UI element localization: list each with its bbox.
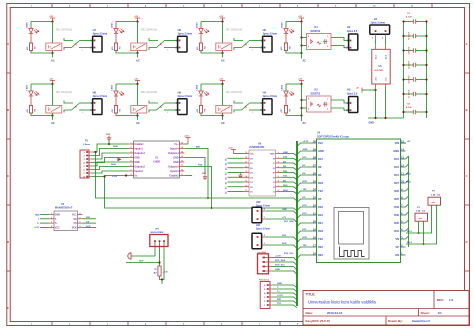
- svg-text:14: 14: [245, 175, 247, 178]
- svg-text:5: 5: [278, 176, 279, 178]
- svg-text:Inputs3: Inputs3: [170, 170, 179, 173]
- svg-text:Date:: Date:: [306, 311, 314, 315]
- wire JP5 pin3 down: [160, 247, 165, 280]
- node top K3: [300, 83, 302, 85]
- svg-text:RX0: RX0: [318, 229, 324, 233]
- IC U1 L293D: [129, 141, 185, 178]
- svg-text:AC: AC: [303, 122, 307, 125]
- wire H1 pin1 to U5 AC1: [375, 39, 377, 44]
- power flag +12V H5 block: [219, 16, 225, 21]
- wire LED to resistor R1: [115, 34, 117, 43]
- relay coil K3: [216, 43, 232, 51]
- svg-text:2pins 3.5mm: 2pins 3.5mm: [263, 32, 277, 35]
- svg-text:JRC-23F(4100): JRC-23F(4100): [226, 91, 243, 94]
- wire long loop 2: [103, 175, 297, 211]
- svg-text:L293D: L293D: [153, 161, 160, 164]
- svg-text:GND: GND: [303, 149, 308, 151]
- net label AC: [301, 116, 303, 122]
- power flag +12V H6 block: [134, 16, 140, 21]
- wire coil vertical: [222, 84, 224, 106]
- svg-text:GND: GND: [106, 134, 111, 136]
- svg-text:2pins 3.5mm: 2pins 3.5mm: [256, 229, 270, 231]
- svg-text:AC: AC: [136, 121, 140, 125]
- svg-text:T-: T-: [55, 219, 57, 221]
- wire K3 to H3 pin1: [331, 100, 349, 103]
- svg-text:H7: H7: [93, 28, 97, 32]
- svg-text:D01_SD4: D01_SD4: [284, 220, 294, 223]
- svg-text:GND: GND: [277, 283, 282, 285]
- svg-text:DI02: DI02: [283, 190, 288, 192]
- wire coil to node: [222, 113, 224, 116]
- svg-text:2.54_1x2: 2.54_1x2: [431, 193, 441, 196]
- wire K3 to H3 pin2: [331, 108, 349, 110]
- svg-text:3: 3: [131, 152, 132, 154]
- svg-text:Sheet:: Sheet:: [421, 311, 430, 315]
- node junction top H7 block: [51, 20, 53, 22]
- svg-text:DOIT ESP32 DevKit V1 copy: DOIT ESP32 DevKit V1 copy: [317, 135, 350, 138]
- svg-text:H4: H4: [263, 90, 267, 94]
- svg-text:D32: D32: [394, 213, 399, 217]
- wire H10 pin2 GND to bus: [266, 209, 297, 214]
- svg-text:2.54_1x2: 2.54_1x2: [416, 210, 426, 213]
- power flag +12V H9 block: [134, 79, 140, 84]
- svg-text:E: E: [7, 306, 9, 310]
- svg-text:SauleVire.LT: SauleVire.LT: [412, 319, 430, 323]
- svg-text:24: 24: [313, 187, 317, 191]
- svg-text:D18: D18: [318, 205, 323, 209]
- connector H10 2pins 3.5mm: [252, 201, 270, 223]
- svg-text:+3.3V: +3.3V: [275, 256, 281, 258]
- relay contact switch K5: [64, 101, 93, 115]
- svg-text:GND: GND: [134, 157, 140, 160]
- svg-text:M3OSCREW: M3OSCREW: [151, 232, 165, 234]
- svg-text:9: 9: [182, 174, 183, 176]
- node junction top H5 block: [221, 20, 223, 22]
- svg-text:1.0: 1.0: [449, 298, 454, 302]
- relay coil K2: [131, 43, 147, 51]
- relay contact switch K3: [234, 38, 263, 52]
- LED LED9: [281, 84, 294, 96]
- svg-text:DO2: DO2: [282, 243, 287, 245]
- svg-text:VP: VP: [396, 245, 400, 249]
- wire P2 pin2 DI0: [406, 205, 437, 245]
- svg-text:H6: H6: [178, 28, 182, 32]
- svg-text:+3.3V: +3.3V: [277, 295, 283, 297]
- svg-text:Drawn By:: Drawn By:: [388, 319, 403, 323]
- wire U1 Outputs3 to loop: [184, 167, 211, 209]
- svg-text:EasyEDA V5.6.15: EasyEDA V5.6.15: [306, 319, 331, 323]
- svg-text:LED3: LED3: [111, 84, 113, 90]
- wire resistor bottom R5: [31, 113, 53, 116]
- antenna terminal symbol: [128, 253, 135, 259]
- svg-text:VCC: VCC: [55, 227, 60, 229]
- svg-text:13: 13: [401, 155, 405, 159]
- power flag +5V at U5 output: [356, 88, 376, 93]
- svg-text:C7 100nF: C7 100nF: [409, 89, 411, 98]
- svg-text:H8: H8: [93, 90, 97, 94]
- net label AC: [222, 53, 224, 58]
- svg-text:D22: D22: [318, 245, 323, 249]
- svg-text:TX2: TX2: [318, 189, 323, 193]
- node junction bottom H4 block: [221, 114, 223, 116]
- node bottom K3: [300, 114, 302, 116]
- power flag +12V H7 block: [49, 16, 55, 21]
- wire resistor bottom R3: [116, 113, 138, 116]
- svg-text:LED8: LED8: [281, 22, 283, 28]
- LED LED4: [195, 84, 209, 96]
- svg-text:DI0 1: DI0 1: [407, 242, 413, 244]
- wire H11 pin1 DO2 to bus: [266, 243, 297, 248]
- svg-text:C: C: [7, 174, 9, 178]
- net label AC: [137, 53, 139, 58]
- node loop1 bus: [207, 197, 209, 199]
- relay contact switch K2: [149, 38, 178, 52]
- capacitor C2 4.7uF: [402, 13, 427, 24]
- svg-text:6: 6: [80, 222, 81, 224]
- wire LED to resistor R2: [200, 34, 202, 43]
- svg-text:GND: GND: [134, 161, 140, 164]
- svg-text:4.7uF: 4.7uF: [406, 16, 412, 19]
- ground symbol right of U1: [202, 158, 207, 180]
- svg-text:D26: D26: [394, 189, 399, 193]
- svg-text:16: 16: [245, 166, 247, 168]
- wire mesh P1 to U1: [92, 144, 129, 177]
- svg-text:Universalus kieto kuro katilo: Universalus kieto kuro katilo valdiklis: [308, 299, 376, 304]
- wire top H8 block: [31, 83, 53, 85]
- capacitor C5 100nF: [402, 60, 427, 69]
- wire coil vertical: [52, 22, 54, 44]
- wire coil to node: [52, 51, 54, 54]
- svg-text:+DC: +DC: [375, 76, 377, 81]
- wire capacitor bank right rail: [426, 22, 428, 119]
- wires bus to U2 left pins: [284, 141, 312, 258]
- svg-text:A: A: [466, 42, 468, 46]
- svg-text:Outputs2: Outputs2: [134, 166, 145, 169]
- net label AC: [137, 116, 139, 121]
- svg-text:D2: D2: [318, 165, 322, 169]
- wires U4 left: [34, 214, 49, 229]
- svg-text:11: 11: [245, 190, 247, 192]
- wire coil vertical: [137, 22, 139, 44]
- svg-text:14: 14: [401, 147, 405, 151]
- svg-text:1: 1: [278, 157, 279, 159]
- svg-text:Inputs4: Inputs4: [170, 148, 179, 151]
- wires U2 right edge hatch entries: [406, 156, 409, 247]
- svg-text:29: 29: [313, 147, 317, 151]
- svg-text:C4 100nF: C4 100nF: [408, 46, 411, 55]
- svg-text:JRC-23F(4100): JRC-23F(4100): [141, 29, 158, 32]
- title block REV: [437, 298, 454, 302]
- wires JP4 to bus: [272, 256, 298, 275]
- connector H6 2pins 3.5mm: [176, 28, 193, 52]
- svg-text:VN: VN: [395, 237, 399, 241]
- connector H8 2pins 3.5mm: [91, 90, 108, 114]
- svg-text:6: 6: [131, 165, 132, 167]
- svg-text:4: 4: [131, 155, 132, 158]
- wire long loop 1: [94, 151, 297, 201]
- svg-text:10: 10: [245, 152, 247, 154]
- connector H1 2pins 3.5mm: [370, 17, 390, 40]
- relay coil K7: [216, 106, 232, 114]
- svg-text:DI07: DI07: [139, 261, 144, 263]
- LED LED5: [26, 84, 39, 96]
- svg-text:C5 100nF: C5 100nF: [409, 60, 411, 69]
- svg-text:DI01: DI01: [283, 185, 288, 187]
- connector P4 2.5mm: [259, 278, 273, 308]
- node junction bottom H6 block: [136, 52, 138, 54]
- svg-text:2pins 3.5mm: 2pins 3.5mm: [263, 95, 277, 98]
- svg-text:GND: GND: [202, 173, 207, 175]
- svg-text:DO1: DO1: [282, 235, 287, 237]
- svg-text:D25: D25: [394, 197, 399, 201]
- svg-text:+12V: +12V: [184, 135, 189, 137]
- title block Drawn By: [388, 319, 430, 323]
- capacitor C4 100nF: [402, 46, 427, 55]
- svg-text:B: B: [466, 108, 468, 112]
- svg-text:Inputs2: Inputs2: [134, 170, 143, 173]
- solid state relay K4 S202T02: [302, 26, 332, 49]
- wire top H9 block: [116, 83, 138, 85]
- wire bottom rail to capacitor bank: [368, 117, 404, 119]
- svg-text:+7V: +7V: [282, 217, 286, 219]
- svg-text:Vs+: Vs+: [174, 143, 179, 146]
- svg-text:TXD: TXD: [198, 164, 203, 166]
- relay coil K5: [46, 106, 62, 114]
- capacitor C7 100nF: [402, 89, 427, 98]
- wire top H4 block: [201, 83, 223, 85]
- svg-text:13: 13: [181, 156, 183, 158]
- relay coil K6: [131, 106, 147, 114]
- svg-text:H1: H1: [374, 17, 378, 21]
- wire coil to node: [137, 51, 139, 54]
- svg-text:8: 8: [131, 174, 132, 176]
- LED LED1: [111, 22, 123, 34]
- wire top K4 block: [286, 21, 302, 23]
- svg-text:7: 7: [278, 185, 279, 187]
- svg-text:14: 14: [181, 151, 183, 154]
- node junction top H8 block: [51, 83, 53, 85]
- svg-text:TITLE:: TITLE:: [306, 293, 316, 297]
- svg-text:D33: D33: [394, 205, 399, 209]
- svg-text:JRC-23F(4100): JRC-23F(4100): [56, 29, 73, 32]
- netflag arrow U1 pin3: [118, 158, 122, 162]
- svg-text:T-: T-: [277, 287, 279, 289]
- svg-text:Enable2: Enable2: [169, 175, 179, 178]
- node junction bottom pullup: [161, 278, 163, 284]
- relay coil K1: [46, 43, 62, 51]
- svg-text:Outputs1: Outputs1: [134, 152, 145, 155]
- svg-text:SO: SO: [73, 219, 77, 221]
- connector JP5 M3OSCREW: [150, 228, 168, 246]
- power flag +12V H8 block: [49, 79, 55, 84]
- wire capacitor bank left rail: [403, 22, 405, 119]
- svg-text:ULN2803APG: ULN2803APG: [249, 146, 265, 149]
- svg-text:D: D: [7, 240, 9, 244]
- svg-text:3: 3: [278, 166, 279, 168]
- wire JP5 pin1 to terminal: [135, 247, 156, 257]
- svg-text:JRC-23F(4100): JRC-23F(4100): [141, 91, 158, 94]
- svg-text:wire: wire: [432, 202, 436, 204]
- svg-text:SCK: SCK: [72, 227, 77, 229]
- svg-text:+3.3V: +3.3V: [303, 141, 309, 143]
- resistor R3 470: [111, 106, 121, 114]
- svg-text:25: 25: [313, 179, 317, 183]
- wire resistor bottom R6: [31, 51, 53, 54]
- svg-text:AC: AC: [221, 121, 225, 125]
- capacitor C3 100nF: [402, 31, 427, 40]
- svg-text:D19: D19: [318, 213, 323, 217]
- svg-text:D34: D34: [394, 229, 399, 233]
- svg-text:26: 26: [313, 171, 317, 175]
- svg-text:DO2_SCL: DO2_SCL: [275, 265, 286, 267]
- connector H5 2pins 3.5mm: [261, 28, 278, 52]
- svg-text:D15: D15: [318, 157, 323, 161]
- svg-text:VIN: VIN: [395, 141, 399, 145]
- svg-text:2pins 3.5mm: 2pins 3.5mm: [93, 95, 107, 98]
- svg-text:+12V: +12V: [112, 176, 118, 178]
- svg-text:CS: CS: [86, 222, 90, 224]
- svg-text:CD+: CD+: [250, 154, 255, 156]
- wires U4 right: [83, 217, 97, 228]
- svg-text:5: 5: [80, 226, 81, 228]
- title block Sheet: [421, 311, 443, 315]
- node U5 output: [374, 89, 376, 91]
- svg-text:C6 100nF: C6 100nF: [409, 75, 411, 84]
- svg-text:N.C.: N.C.: [72, 215, 77, 217]
- title block frame: [303, 291, 469, 326]
- svg-text:D4: D4: [318, 173, 322, 177]
- svg-text:DO1_SD4: DO1_SD4: [275, 259, 286, 262]
- IC U9 ULN2803APG: [244, 143, 282, 196]
- resistor R4 470: [196, 106, 206, 114]
- svg-text:D: D: [466, 240, 468, 244]
- net label AC: [222, 116, 224, 121]
- LED LED8: [281, 22, 294, 34]
- svg-text:DI0 1: DI0 1: [407, 231, 413, 233]
- wire U5 -DC down: [385, 89, 387, 118]
- svg-text:LED6: LED6: [26, 22, 28, 28]
- svg-text:D14: D14: [394, 173, 399, 177]
- power flag +12V at U9: [228, 147, 244, 153]
- svg-text:2pins 3.5mm: 2pins 3.5mm: [371, 22, 385, 25]
- svg-text:KK1: KK1: [86, 217, 91, 219]
- svg-text:7: 7: [80, 217, 81, 219]
- svg-text:EN: EN: [395, 253, 399, 257]
- svg-text:C: C: [466, 174, 468, 178]
- svg-text:D35: D35: [394, 221, 399, 225]
- svg-text:D5: D5: [318, 197, 322, 201]
- svg-text:JRC-23F(4100): JRC-23F(4100): [226, 29, 243, 32]
- wire K4 to H2 pin1: [331, 38, 349, 41]
- svg-text:DI02: DI02: [406, 182, 411, 184]
- svg-text:C3 100nF: C3 100nF: [409, 31, 411, 40]
- node junction bottom H5 block: [221, 52, 223, 54]
- svg-text:Inputs1: Inputs1: [134, 148, 143, 151]
- svg-text:D13: D13: [394, 157, 399, 161]
- svg-text:18: 18: [313, 235, 317, 239]
- power flag +12V K4 block: [298, 16, 304, 21]
- wire coil to node: [137, 113, 139, 116]
- svg-text:DI05: DI05: [113, 146, 118, 148]
- svg-text:5: 5: [131, 161, 132, 163]
- svg-text:2pins 3.5: 2pins 3.5: [347, 92, 358, 95]
- wire top H6 block: [116, 21, 138, 23]
- svg-text:3.5mm: 3.5mm: [83, 144, 90, 146]
- capacitor C8 4.7uF: [402, 104, 427, 115]
- net label +5V at VIN: [401, 141, 411, 143]
- wire resistor to node: [286, 113, 302, 116]
- wire top H5 block: [201, 21, 223, 23]
- solid state relay K3 S202T02: [302, 89, 332, 112]
- node top K4: [300, 20, 302, 22]
- svg-text:Outputs4: Outputs4: [168, 152, 179, 155]
- capacitor C6 100nF: [402, 75, 427, 84]
- svg-text:S202T02: S202T02: [311, 92, 321, 95]
- resistor R2 470: [196, 43, 206, 51]
- svg-text:1: 1: [131, 143, 132, 145]
- wires U9 inputs left: [224, 157, 243, 194]
- svg-text:GND: GND: [318, 149, 324, 153]
- svg-text:2pins 3.5mm: 2pins 3.5mm: [93, 32, 107, 35]
- wires U9 outputs to bus: [281, 152, 297, 194]
- svg-text:19: 19: [313, 227, 317, 231]
- svg-text:2: 2: [51, 217, 52, 219]
- svg-text:4.7uF: 4.7uF: [406, 106, 412, 109]
- svg-text:+12V: +12V: [228, 147, 233, 149]
- svg-text:JRC-23F(4100): JRC-23F(4100): [56, 91, 73, 94]
- svg-text:11: 11: [181, 165, 183, 167]
- wire coil vertical: [52, 84, 54, 106]
- wire P3 pin2 down: [423, 221, 425, 244]
- svg-text:18: 18: [245, 157, 247, 159]
- svg-text:H11: H11: [256, 224, 261, 227]
- svg-text:D27: D27: [394, 181, 399, 185]
- connector H4 2pins 3.5mm: [261, 90, 278, 114]
- connector H2 2pins 3.5mm: [347, 25, 358, 50]
- resistor R5 470: [26, 106, 36, 114]
- svg-text:9: 9: [278, 152, 279, 154]
- wire DI07 horizontal: [126, 261, 160, 263]
- svg-text:12: 12: [181, 161, 183, 163]
- node junction top H6 block: [136, 20, 138, 22]
- svg-text:2: 2: [278, 162, 279, 164]
- svg-text:HLK-PM01: HLK-PM01: [375, 70, 384, 72]
- svg-text:CS: CS: [73, 223, 77, 225]
- relay contact switch K1: [64, 38, 93, 52]
- svg-text:S202T02: S202T02: [311, 30, 321, 33]
- wire LED to resistor R9: [285, 97, 287, 106]
- svg-text:4: 4: [278, 170, 279, 173]
- node junction U1 pin8 wire: [125, 174, 127, 176]
- svg-text:LED2: LED2: [196, 22, 198, 28]
- svg-text:wire: wire: [419, 218, 423, 220]
- connector H11 2pins 3.5mm: [252, 224, 270, 249]
- svg-text:Enable1: Enable1: [134, 143, 144, 146]
- svg-text:AC: AC: [303, 60, 307, 63]
- wire LED to resistor R8: [285, 34, 287, 43]
- svg-text:2019-04-10: 2019-04-10: [327, 311, 343, 315]
- wire U5 +DC down: [375, 89, 377, 118]
- svg-text:22: 22: [313, 203, 317, 207]
- connector P1 header: [80, 139, 92, 178]
- svg-text:DI04: DI04: [111, 163, 116, 166]
- IC U4 MAX6675ISA+T: [49, 203, 83, 231]
- power flag +12V K3 block: [298, 79, 304, 84]
- wire LED to resistor R6: [30, 34, 32, 43]
- power flag +12V H4 block: [219, 79, 225, 84]
- resistor R7 4k7 pullup: [153, 266, 168, 276]
- svg-text:GND: GND: [282, 209, 287, 211]
